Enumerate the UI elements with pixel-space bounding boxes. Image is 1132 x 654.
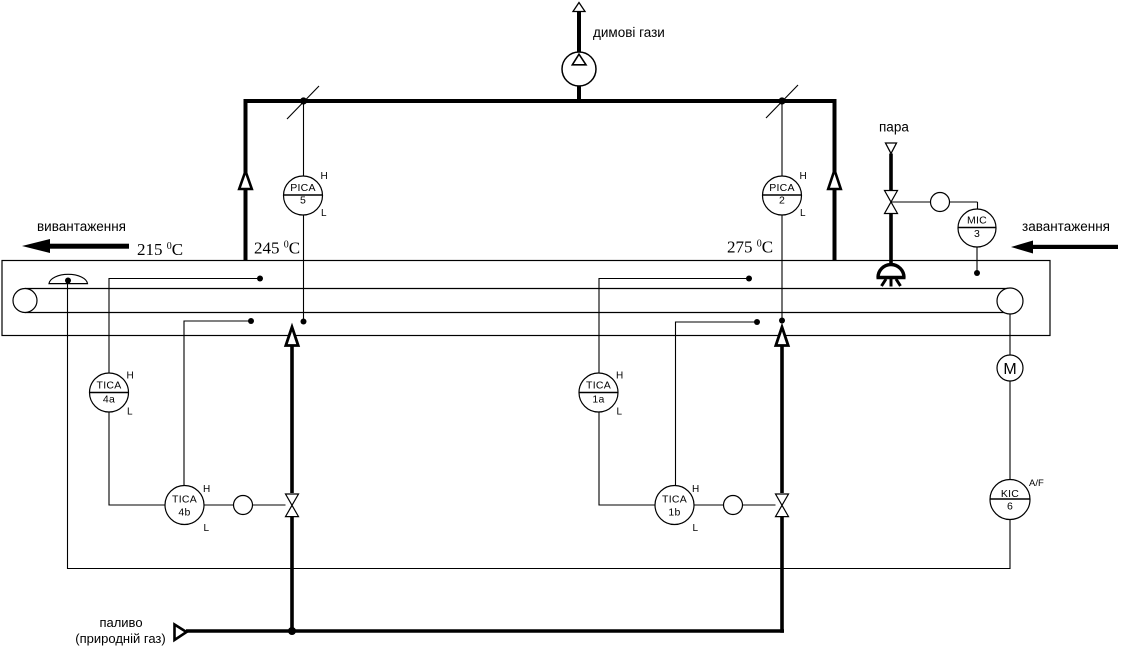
svg-text:H: H [616, 371, 623, 382]
svg-text:PICA: PICA [769, 182, 795, 194]
svg-text:PICA: PICA [290, 182, 316, 194]
svg-text:вивантаження: вивантаження [37, 219, 126, 234]
svg-text:L: L [800, 208, 806, 219]
svg-text:TICA: TICA [172, 493, 197, 505]
svg-text:H: H [800, 171, 807, 182]
svg-text:завантаження: завантаження [1022, 219, 1110, 234]
svg-text:пара: пара [879, 120, 909, 135]
svg-text:M: M [1003, 361, 1016, 378]
svg-text:TICA: TICA [586, 379, 611, 391]
svg-text:H: H [692, 484, 699, 495]
svg-text:MIC: MIC [967, 215, 987, 227]
svg-text:TICA: TICA [662, 493, 687, 505]
svg-text:H: H [203, 484, 210, 495]
svg-text:1b: 1b [668, 507, 680, 519]
svg-text:A/F: A/F [1029, 478, 1044, 489]
svg-text:275 0C: 275 0C [727, 238, 773, 257]
svg-text:(природній газ): (природній газ) [75, 631, 165, 646]
svg-text:L: L [127, 407, 133, 418]
svg-text:4b: 4b [178, 507, 190, 519]
svg-text:TICA: TICA [97, 379, 122, 391]
svg-text:L: L [204, 523, 210, 534]
svg-text:H: H [127, 371, 134, 382]
svg-text:паливо: паливо [99, 615, 142, 630]
svg-text:L: L [321, 208, 327, 219]
svg-text:245 0C: 245 0C [254, 239, 300, 258]
svg-text:L: L [693, 523, 699, 534]
svg-text:L: L [617, 407, 623, 418]
svg-text:4a: 4a [103, 393, 115, 405]
svg-text:6: 6 [1007, 501, 1013, 513]
svg-text:димові гази: димові гази [593, 25, 665, 40]
svg-text:215 0C: 215 0C [137, 240, 183, 259]
svg-text:2: 2 [779, 195, 785, 207]
svg-text:1a: 1a [592, 393, 604, 405]
svg-text:KIC: KIC [1001, 488, 1019, 500]
svg-text:3: 3 [974, 228, 980, 240]
svg-text:H: H [321, 171, 328, 182]
svg-text:5: 5 [300, 195, 306, 207]
